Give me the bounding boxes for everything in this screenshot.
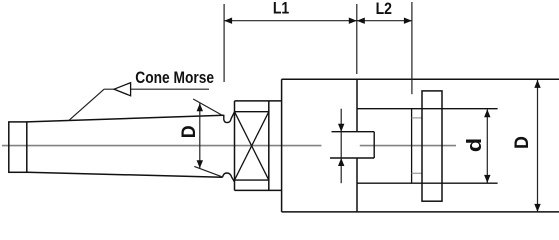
shaft step <box>411 109 413 184</box>
tang rectangle (left end) <box>9 122 27 172</box>
taper top line <box>27 115 224 122</box>
flange inner edges <box>235 111 269 113</box>
stub bottom edge <box>330 157 374 159</box>
cone morse open arrowhead <box>114 83 131 96</box>
centerline <box>2 145 321 147</box>
right D dimension line <box>537 80 539 212</box>
L2 dimension line <box>357 20 412 22</box>
taper end face + top groove <box>224 112 235 123</box>
svg-text:D: D <box>177 125 199 138</box>
left D dimension line <box>199 103 201 168</box>
d dimension line <box>486 109 488 183</box>
stub top edge <box>332 131 375 133</box>
taper bottom line <box>27 172 223 177</box>
left D oblique extension top <box>193 99 222 115</box>
X cross <box>235 112 269 180</box>
svg-text:D: D <box>510 136 532 149</box>
svg-text:L2: L2 <box>376 0 392 18</box>
shaft bottom line + d extension <box>357 182 498 184</box>
L1 dimension line <box>224 20 357 22</box>
body bottom edge + D extension line <box>282 211 559 213</box>
bottom groove <box>223 173 235 182</box>
shaft top line + d extension <box>357 108 498 110</box>
left D oblique extension bottom <box>194 166 222 177</box>
flange (X-box section) <box>234 101 236 190</box>
svg-text:Cone Morse: Cone Morse <box>135 69 214 87</box>
body top edge + D extension line <box>282 78 559 80</box>
svg-text:L1: L1 <box>273 0 290 18</box>
L2 extension line right <box>411 2 413 94</box>
L1/L2 extension line middle <box>356 4 358 74</box>
cone morse leader horizontal <box>104 88 209 90</box>
body <box>281 79 283 212</box>
disc (nut) <box>422 91 442 201</box>
stub right edge <box>373 132 375 158</box>
thread minor lines <box>412 117 422 119</box>
stub dimension line <box>340 109 342 184</box>
cone morse leader diagonal <box>69 89 104 120</box>
L1 extension line left <box>223 4 225 82</box>
svg-text:d: d <box>463 138 486 152</box>
